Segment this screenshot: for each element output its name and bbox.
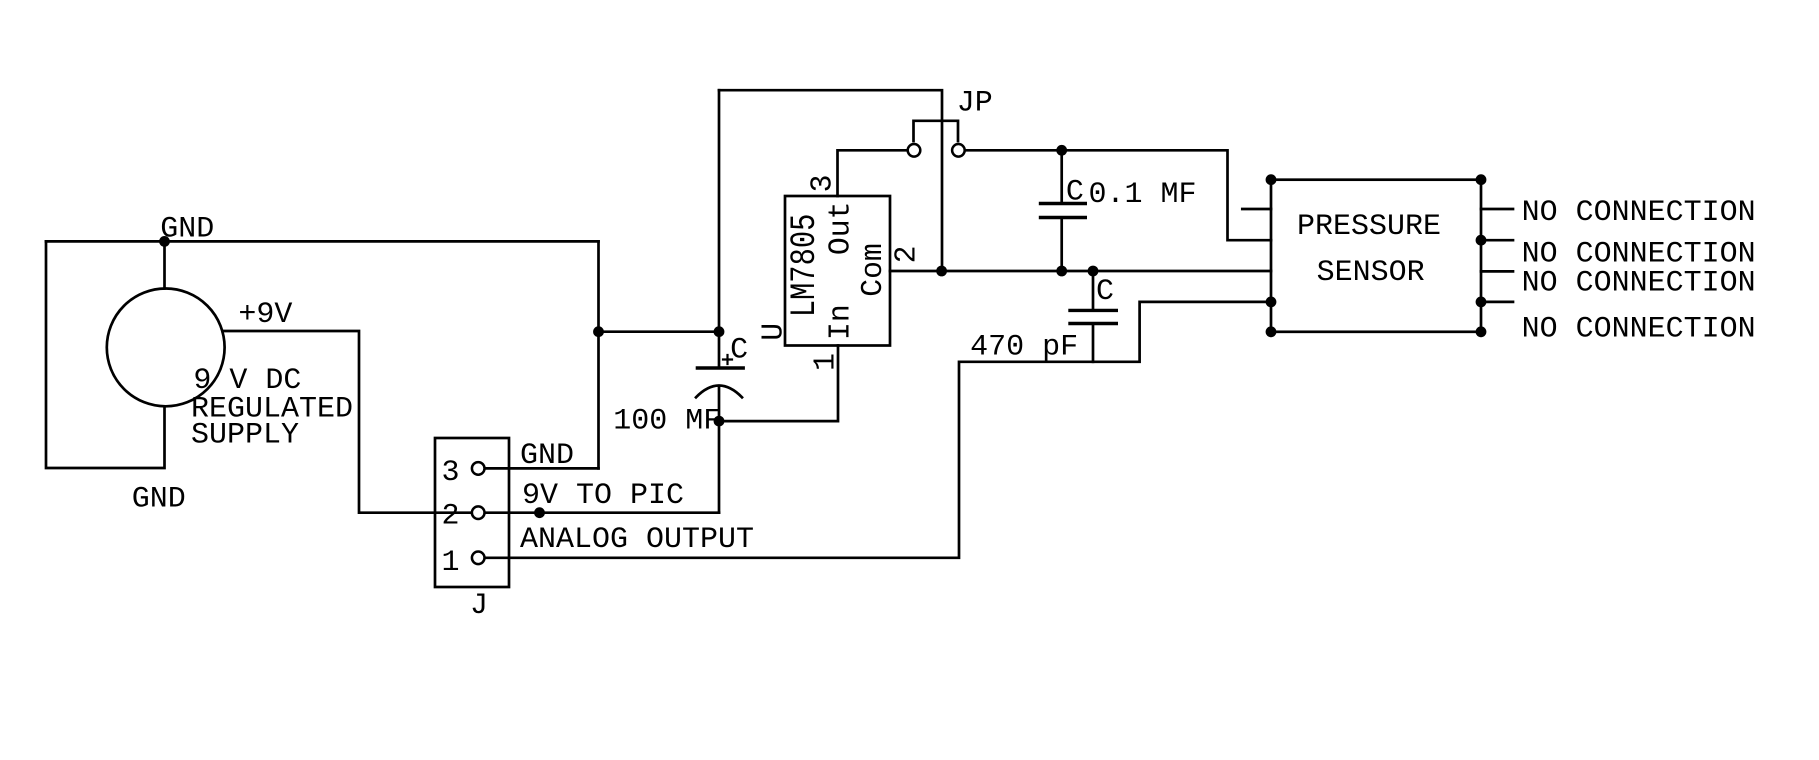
svg-text:C: C (1096, 275, 1114, 309)
svg-text:JP: JP (957, 87, 993, 121)
svg-text:Com: Com (856, 243, 891, 297)
svg-text:1: 1 (442, 546, 460, 580)
svg-text:Out: Out (824, 202, 859, 256)
svg-text:NO CONNECTION: NO CONNECTION (1522, 196, 1756, 230)
svg-text:+9V: +9V (238, 298, 292, 332)
svg-text:100 MF: 100 MF (613, 404, 721, 438)
svg-text:PRESSURE: PRESSURE (1297, 210, 1441, 244)
svg-text:2: 2 (890, 246, 925, 264)
svg-text:In: In (824, 304, 859, 340)
svg-text:SENSOR: SENSOR (1317, 256, 1425, 290)
svg-text:NO CONNECTION: NO CONNECTION (1522, 267, 1756, 301)
svg-text:2: 2 (442, 500, 460, 534)
svg-text:C: C (730, 333, 748, 367)
svg-text:3: 3 (806, 175, 841, 193)
svg-text:C: C (1066, 175, 1084, 209)
svg-text:0.1 MF: 0.1 MF (1089, 178, 1197, 212)
svg-text:1: 1 (809, 353, 844, 371)
svg-text:3: 3 (442, 456, 460, 490)
svg-text:GND: GND (132, 483, 186, 517)
svg-text:470 pF: 470 pF (970, 331, 1078, 365)
svg-text:ANALOG OUTPUT: ANALOG OUTPUT (520, 523, 754, 557)
svg-text:LM7805: LM7805 (784, 214, 825, 318)
svg-text:NO CONNECTION: NO CONNECTION (1522, 313, 1756, 347)
svg-text:GND: GND (520, 439, 574, 473)
svg-text:SUPPLY: SUPPLY (191, 419, 299, 453)
svg-text:9V TO PIC: 9V TO PIC (522, 479, 684, 513)
svg-text:J: J (470, 589, 488, 623)
svg-text:U: U (757, 323, 792, 341)
svg-text:GND: GND (160, 213, 214, 247)
